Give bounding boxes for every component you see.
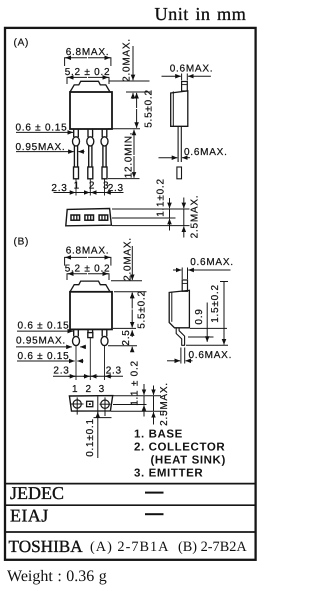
svg-text:2.0MAX.: 2.0MAX. [122,38,133,82]
svg-text:0.95MAX.: 0.95MAX. [16,335,66,346]
svg-text:5.5±0.2: 5.5±0.2 [137,290,148,329]
A dim 2.5MAX vertical [184,195,201,239]
A lead numbers [74,181,110,192]
A lead 1 [73,130,80,196]
svg-text:0.6 ± 0.15: 0.6 ± 0.15 [18,351,70,362]
svg-text:JEDEC: JEDEC [10,483,64,503]
B dim 2.5MAX vertical [154,382,171,426]
svg-text:0.6MAX.: 0.6MAX. [189,350,233,361]
svg-text:0.6 ± 0.15: 0.6 ± 0.15 [16,123,68,134]
A bottom view pad 2 [85,215,94,220]
svg-text:2.3: 2.3 [53,366,69,377]
svg-text:0.9: 0.9 [194,308,205,324]
svg-text:Weight : 0.36 g: Weight : 0.36 g [7,568,107,585]
B front view tab [70,281,110,292]
A bottom view outline [66,209,112,226]
svg-text:(A) 2-7B1A: (A) 2-7B1A [90,539,170,555]
B bottom view outline [69,396,112,412]
B lead 2 [88,330,93,380]
A dim 12.0MIN vertical [108,129,140,179]
svg-text:(HEAT SINK): (HEAT SINK) [151,455,226,467]
B side view right extension lines [186,328,228,345]
A dim 2.3 lead pitch [51,183,123,194]
svg-text:0.6MAX.: 0.6MAX. [184,147,228,158]
svg-text:2.5MAX.: 2.5MAX. [159,382,170,426]
svg-text:TOSHIBA: TOSHIBA [9,537,84,556]
table line 3 [5,531,256,533]
svg-text:1: 1 [72,384,78,395]
frame border [5,28,256,560]
B dim 0.6±0.15 lower leader [17,351,84,362]
A dim 0.95MAX leader [16,142,85,153]
svg-text:3: 3 [103,181,109,192]
A side view body [171,91,188,126]
B dim 2.3 lead pitch [53,366,123,377]
svg-text:0.6MAX.: 0.6MAX. [190,257,234,268]
svg-text:0.6MAX.: 0.6MAX. [170,64,214,75]
B side view dim 0.6MAX top [173,257,234,279]
A dim 0.6±0.15 leader [16,123,74,134]
svg-text:1: 1 [74,181,80,192]
A side view lead [177,126,182,178]
B bottom view extension lines [111,396,164,412]
svg-text:5.2 ± 0.2: 5.2 ± 0.2 [65,67,111,78]
svg-text:(A): (A) [14,37,30,48]
B bottom view hole 1 [71,397,84,414]
svg-text:2.5MAX.: 2.5MAX. [190,195,201,239]
svg-text:Unit in mm: Unit in mm [155,4,247,24]
svg-text:1.5±0.2: 1.5±0.2 [210,284,221,323]
svg-text:(B): (B) [14,236,30,247]
B front view body [70,292,112,330]
svg-text:3. EMITTER: 3. EMITTER [134,468,203,480]
A dim 1.1±0.2 vertical [156,178,170,230]
B side view tab [182,280,187,291]
svg-text:2.3: 2.3 [106,366,122,377]
A side view tab [182,82,188,92]
B dim 2.5 lead length vertical [108,329,137,351]
svg-text:1. BASE: 1. BASE [134,428,183,440]
A side view dim 0.6MAX top [162,64,214,81]
table line 2 [5,504,256,506]
B dim 0.6±0.15 upper leader [17,321,73,332]
A lead 3 [101,130,108,196]
A lead 2 [87,130,94,196]
B side view body [169,290,189,328]
A dim 5.5±0.2 vertical [126,89,154,128]
B dim 1.1±0.2 vertical [130,360,144,416]
B dim 5.2±0.2 [65,263,111,280]
svg-text:0.6 ± 0.15: 0.6 ± 0.15 [18,321,70,332]
B lead 3 [101,330,108,380]
B dim 6.8MAX [65,245,111,265]
B dim 0.1±0.1 vertical [85,396,112,458]
svg-text:5.5±0.2: 5.5±0.2 [143,89,154,128]
A front view tab [70,81,110,92]
A bottom view extension lines [112,209,190,226]
A side view dim 0.6MAX bottom [159,147,228,158]
svg-text:0.1±0.1: 0.1±0.1 [85,418,96,457]
B lead 1 [73,330,80,380]
B dim 0.9 vertical [194,303,207,342]
svg-text:2: 2 [85,384,91,395]
svg-text:2.5: 2.5 [121,329,132,345]
svg-text:12.0MIN.: 12.0MIN. [123,132,134,179]
svg-text:3: 3 [99,384,105,395]
A bottom view pad 1 [71,215,80,220]
B dim 2.0MAX vertical [111,237,142,298]
svg-text:5.2 ± 0.2: 5.2 ± 0.2 [65,263,111,274]
A front view body [70,92,112,129]
svg-text:EIAJ: EIAJ [10,505,49,525]
A dim 5.2±0.2 [65,67,111,84]
B lead numbers [72,384,105,395]
table line 1 [5,483,256,485]
B bottom view hole 3 [100,397,111,416]
B dim 5.5±0.2 vertical [113,290,148,329]
B dim 1.5±0.2 vertical [210,282,228,345]
svg-text:6.8MAX.: 6.8MAX. [66,245,110,256]
B bottom view center pad [87,401,93,406]
A dim 6.8MAX [65,47,111,66]
svg-text:1.1±0.2: 1.1±0.2 [156,178,167,217]
svg-text:2. COLLECTOR: 2. COLLECTOR [134,441,225,453]
B side view gull-wing lead [176,328,184,345]
svg-text:6.8MAX.: 6.8MAX. [66,47,110,58]
svg-text:1.1 ± 0.2: 1.1 ± 0.2 [130,360,141,406]
B dim 0.95MAX leader [16,335,86,347]
B side view dim 0.6MAX bottom [167,348,232,364]
A dim 2.0MAX vertical [109,38,150,99]
svg-text:2: 2 [89,181,95,192]
A bottom view pad 3 [99,215,108,220]
svg-text:(B) 2-7B2A: (B) 2-7B2A [178,539,247,555]
